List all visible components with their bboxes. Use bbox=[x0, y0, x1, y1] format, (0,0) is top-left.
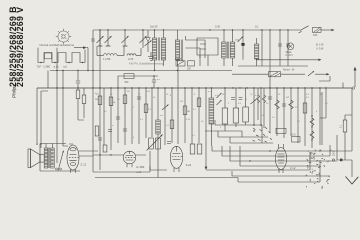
trimmer capacitor C4 bbox=[142, 30, 144, 48]
resistor R6 bbox=[109, 97, 113, 106]
decoupling network wire bbox=[118, 76, 158, 88]
svg-text:540: 540 bbox=[313, 34, 318, 37]
svg-text:2M: 2M bbox=[95, 99, 98, 101]
vertical wire v100 bbox=[99, 30, 101, 170]
output stage frame bbox=[40, 144, 80, 172]
nest wire y131 bbox=[205, 131, 242, 137]
output transformer primary bbox=[44, 148, 48, 168]
ground symbol osc bbox=[148, 52, 154, 60]
vertical wire v326 bbox=[320, 88, 326, 118]
trimmer arrow g1 bbox=[217, 93, 222, 98]
output transformer core bbox=[49, 148, 50, 169]
vertical wire v192 bbox=[191, 88, 193, 144]
vertical wire v312 bbox=[311, 88, 313, 148]
wire T1 connections bbox=[155, 30, 164, 71]
svg-text:6.3/0.3: 6.3/0.3 bbox=[286, 55, 294, 57]
capacitor C9 bbox=[116, 117, 120, 119]
triode V2 bbox=[170, 146, 182, 172]
wire T3 connections bbox=[224, 30, 233, 66]
second bus bbox=[50, 70, 232, 72]
coil L1 bbox=[97, 55, 104, 57]
top supply bus bbox=[93, 29, 300, 31]
tube socket pinout diagram bbox=[56, 29, 72, 45]
resistor R8 bbox=[144, 104, 148, 113]
frame antenna left wires bbox=[37, 88, 48, 145]
trimmer capacitor C2 bbox=[107, 30, 109, 46]
vertical wire v305 bbox=[304, 88, 306, 146]
vertical wire v93 bbox=[92, 71, 94, 173]
vertical wire v337 bbox=[336, 135, 338, 160]
svg-text:G.05: G.05 bbox=[128, 58, 134, 61]
fuse F1 bbox=[313, 27, 322, 32]
svg-text:2M: 2M bbox=[180, 101, 183, 103]
wire tube V3 links bbox=[63, 144, 98, 156]
mains resistor box bbox=[269, 72, 281, 77]
main horizontal bus bbox=[37, 87, 352, 89]
wire V2 cathode link bbox=[150, 166, 167, 170]
svg-text:29575: 29575 bbox=[176, 59, 183, 61]
coil L2 bbox=[127, 54, 136, 56]
vertical wire v146 bbox=[145, 88, 147, 138]
resistor R5c bbox=[103, 145, 107, 152]
capacitor C8b bbox=[108, 130, 112, 132]
IF transformer T3 secondary bbox=[230, 42, 235, 58]
svg-text:1.1798: 1.1798 bbox=[103, 58, 111, 61]
coil L6 bbox=[209, 98, 214, 124]
vertical wire v132 bbox=[131, 88, 133, 144]
capacitor C12 bbox=[231, 98, 235, 100]
small arrow symbol bbox=[308, 71, 314, 76]
output tube V3 bbox=[67, 145, 79, 173]
volume pot boxes bbox=[149, 138, 154, 149]
vertical wire v284 bbox=[283, 88, 285, 138]
wire to mains arrow bbox=[321, 29, 331, 31]
svg-text:B: 2 W: B: 2 W bbox=[316, 43, 324, 46]
IF transformer T3 core bbox=[227, 42, 229, 59]
coupling wires upper bbox=[186, 36, 206, 58]
IF transformer T3 primary bbox=[222, 42, 227, 58]
svg-text:Normal und Rahmenantenne: Normal und Rahmenantenne bbox=[40, 43, 75, 47]
bus end circle bbox=[352, 87, 354, 89]
capacitor C8 bbox=[98, 138, 102, 140]
trimmer arrow mid1 bbox=[162, 105, 169, 111]
wire into V1 bbox=[93, 154, 146, 156]
svg-text:2x0.05: 2x0.05 bbox=[150, 25, 158, 28]
svg-text:Netztr - W: Netztr - W bbox=[283, 68, 295, 71]
svg-text:0.1: 0.1 bbox=[255, 25, 259, 28]
wire v270 v280 v288 bbox=[270, 30, 288, 66]
resistor zigzag R13d bbox=[262, 95, 266, 103]
resistor R9 bbox=[170, 120, 174, 129]
junction dots on main bus bbox=[56, 87, 57, 88]
long verticals left bbox=[57, 71, 63, 151]
mains link wire bbox=[232, 73, 305, 75]
vertical wire v172 bbox=[171, 88, 173, 143]
heater wire bbox=[256, 59, 318, 61]
capacitor C5 bbox=[242, 30, 244, 43]
vertical wire v320 pair bbox=[320, 88, 322, 145]
aerial up arrow bbox=[354, 70, 356, 87]
wire v262 bbox=[261, 30, 263, 66]
capacitor on v93 bbox=[91, 39, 95, 41]
terminal socket dots bbox=[40, 62, 41, 63]
nest wire y176 bbox=[232, 171, 330, 176]
resistor R12 bbox=[222, 108, 228, 124]
title text Philips 258/259/268/269 B bbox=[8, 6, 18, 98]
nest wire y143 bbox=[230, 137, 273, 143]
vertical wire v291 bbox=[290, 88, 292, 136]
resistor zigzag R15 bbox=[289, 100, 294, 109]
capacitor C14 bbox=[282, 104, 286, 106]
earth connector dot bbox=[332, 159, 334, 161]
dial lamp bbox=[287, 43, 294, 50]
vertical wire v206 bbox=[205, 88, 207, 167]
IF transformer T1 secondary bbox=[161, 38, 165, 60]
resistor R23 bbox=[197, 144, 202, 154]
nest wire y170 bbox=[206, 152, 310, 170]
vertical wire v104 bbox=[103, 88, 105, 145]
resistor box R2 bbox=[188, 61, 195, 66]
left AVC capacitor bbox=[77, 71, 79, 81]
resistor R17 bbox=[310, 118, 314, 126]
bottom wire a bbox=[93, 151, 150, 172]
antenna link box bbox=[45, 53, 52, 59]
oscillator box bbox=[197, 38, 218, 55]
bus tick bbox=[342, 83, 344, 89]
loudspeaker bbox=[28, 149, 44, 168]
screen resistor box R1 bbox=[176, 61, 185, 66]
vertical wire v199 bbox=[198, 88, 200, 143]
vertical wire v277 bbox=[276, 88, 278, 136]
svg-text:1M: 1M bbox=[187, 111, 190, 113]
capacitor C13 bbox=[268, 97, 272, 99]
right edge vertical bbox=[351, 88, 353, 151]
svg-text:Skala: Skala bbox=[286, 52, 292, 54]
mains tangle bbox=[306, 149, 332, 188]
comb drop wire bbox=[56, 48, 58, 71]
rectifier tube V4 bbox=[275, 144, 286, 173]
capacitor C V2 grid bbox=[167, 142, 171, 144]
svg-text:V: 5 W: V: 5 W bbox=[316, 47, 324, 50]
vertical wire v261 bbox=[258, 88, 261, 125]
capacitor C12b bbox=[239, 98, 243, 100]
resistor R13b bbox=[243, 107, 249, 122]
mains plug arrow bbox=[346, 177, 359, 185]
svg-text:258/259/268/269 V: 258/259/268/269 V bbox=[15, 7, 25, 87]
vertical wire v125 bbox=[124, 88, 126, 145]
svg-text:9.a3: 9.a3 bbox=[186, 163, 192, 167]
resistor R4 bbox=[82, 95, 86, 104]
mains bracket bbox=[319, 76, 330, 81]
vertical wire v178 bbox=[177, 66, 179, 144]
coil L5 bbox=[156, 120, 160, 134]
svg-text:0.05: 0.05 bbox=[215, 25, 220, 28]
wire T2 connections bbox=[177, 30, 179, 66]
nest wire y182 bbox=[238, 160, 320, 182]
vertical wire v185 bbox=[184, 88, 186, 143]
antenna terminal comb bbox=[38, 48, 85, 63]
resistor zigzag R13c bbox=[256, 95, 260, 103]
IF transformer T1 core bbox=[158, 38, 160, 61]
vertical wire v270b bbox=[269, 66, 271, 133]
antenna selector arrow bbox=[74, 47, 83, 49]
earth wire bbox=[337, 160, 352, 177]
nest wire y137 bbox=[218, 131, 268, 137]
resistor zigzag R14 bbox=[275, 100, 280, 109]
svg-text:2 x2: 2 x2 bbox=[290, 166, 296, 170]
junction dots on top bus bbox=[99, 29, 100, 30]
IF transformer T2 core bbox=[181, 40, 183, 61]
svg-text:29.5: 29.5 bbox=[291, 135, 296, 137]
IF transformer T1 primary bbox=[152, 38, 156, 60]
trimmer capacitor C1 bbox=[99, 30, 101, 46]
capacitor C11 bbox=[137, 97, 141, 99]
oscillator coil L3 bbox=[147, 30, 149, 38]
wire gang to coils bbox=[97, 46, 141, 56]
vertical wire v111 bbox=[110, 88, 112, 150]
pickup jack switch bbox=[56, 168, 58, 170]
bottom wire b bbox=[95, 178, 238, 183]
resistor R5b bbox=[95, 126, 99, 136]
decoupling resistor box bbox=[124, 74, 134, 79]
resistor R16 bbox=[303, 103, 307, 113]
nest wire y161 bbox=[230, 146, 337, 161]
resistor box R24 bbox=[276, 128, 286, 133]
IF transformer T2 primary bbox=[175, 40, 179, 60]
output transformer secondary bbox=[51, 148, 55, 168]
vertical wire v254 bbox=[253, 88, 255, 125]
wire speaker top bbox=[37, 144, 52, 149]
vertical wire v165 bbox=[164, 88, 166, 145]
wire second bus left drop bbox=[47, 71, 49, 89]
svg-text:TLF 1.36E a.u1 ru1: TLF 1.36E a.u1 ru1 bbox=[37, 65, 68, 69]
resistor box R18 bbox=[292, 137, 301, 143]
junction dots bottom bbox=[249, 160, 250, 161]
capacitor C6 bbox=[278, 44, 282, 46]
trimmer arrow mid3 bbox=[251, 100, 257, 105]
resistor R11 bbox=[197, 98, 201, 107]
capacitor C10 bbox=[123, 129, 127, 131]
trimmer capacitor C3 bbox=[124, 30, 126, 46]
heater bus bbox=[238, 65, 308, 67]
svg-text:1W: 1W bbox=[127, 91, 130, 93]
left AVC resistor R3 bbox=[76, 90, 80, 99]
vertical wire v118 bbox=[117, 88, 119, 143]
resistor R13 bbox=[233, 108, 239, 123]
resistor R22 bbox=[190, 144, 195, 154]
resistor R7 bbox=[123, 95, 127, 104]
svg-text:Z 12: Z 12 bbox=[81, 162, 87, 166]
mains link wire right bbox=[315, 73, 326, 75]
junction dot cluster bbox=[253, 124, 255, 126]
trimmer arrow g2 bbox=[217, 100, 222, 105]
decoupling capacitor bbox=[152, 80, 156, 82]
left vertical of top bus bbox=[92, 30, 94, 71]
svg-text:E 383: E 383 bbox=[137, 165, 145, 169]
pentode V1 bbox=[123, 151, 136, 167]
nest wire y156 bbox=[222, 145, 330, 156]
vertical wire v158 bbox=[157, 88, 159, 120]
nest wire y151 bbox=[212, 146, 352, 151]
svg-text:F.W. Ph. Schaltbildersammlung: F.W. Ph. Schaltbildersammlung bbox=[129, 62, 164, 65]
svg-text:4W: 4W bbox=[286, 97, 289, 99]
mains switch bbox=[299, 26, 309, 33]
resistor R19 bbox=[345, 115, 352, 120]
vertical wire v298 bbox=[297, 88, 299, 143]
nest wire y125 bbox=[215, 120, 262, 143]
resistor R5 bbox=[98, 96, 102, 105]
capacitor C7 bbox=[286, 44, 290, 46]
vertical wire v152 bbox=[151, 88, 153, 137]
resistor R10 bbox=[183, 106, 187, 115]
vertical wire v139 bbox=[138, 88, 140, 144]
nest wire y166 bbox=[240, 146, 320, 166]
vertical wire v264 bbox=[263, 88, 265, 128]
coil L4 bbox=[254, 44, 258, 59]
trimmer arrow osc bbox=[238, 37, 244, 43]
